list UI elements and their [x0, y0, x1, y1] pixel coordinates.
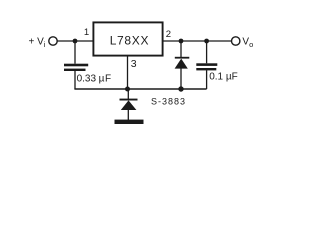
svg-text:+ Vi: + Vi: [29, 37, 46, 50]
wire pin2 to output terminal: [164, 40, 232, 42]
wire input to pin1: [57, 40, 92, 42]
svg-text:L78XX: L78XX: [110, 34, 150, 48]
node input junction: [73, 39, 78, 44]
wire capacitor C2 drop: [206, 41, 208, 63]
capacitor C2 plates: [196, 63, 217, 66]
regulator IC U1 box: [93, 22, 162, 55]
input terminal: [49, 37, 57, 45]
ground: [115, 120, 144, 124]
diode D2: [175, 57, 190, 59]
wire diode D1 top: [127, 89, 129, 99]
svg-text:2: 2: [166, 29, 171, 40]
svg-text:S-3883: S-3883: [151, 96, 186, 106]
svg-text:3: 3: [131, 58, 137, 70]
capacitor C1 plates: [64, 64, 88, 67]
node pin3-rail junction: [125, 87, 130, 92]
svg-text:Vo: Vo: [242, 37, 253, 50]
ground rail: [74, 88, 206, 90]
wire C2 to rail: [206, 70, 208, 89]
diode D1: [120, 99, 138, 101]
svg-text:0.33µF: 0.33µF: [77, 74, 112, 85]
wire pin3: [127, 56, 129, 89]
node B junction: [179, 39, 184, 44]
node D2-rail junction: [178, 86, 183, 91]
node C junction: [204, 39, 209, 44]
wire diode D2 top: [180, 41, 182, 57]
wire diode D2 bottom to rail: [180, 69, 182, 90]
wire diode D1 to ground: [127, 109, 129, 120]
output terminal: [232, 37, 240, 45]
wire capacitor C1 drop: [74, 41, 76, 64]
svg-text:1: 1: [84, 27, 89, 38]
svg-text:0.1µF: 0.1µF: [209, 71, 238, 82]
wire C1 to rail: [74, 71, 76, 89]
